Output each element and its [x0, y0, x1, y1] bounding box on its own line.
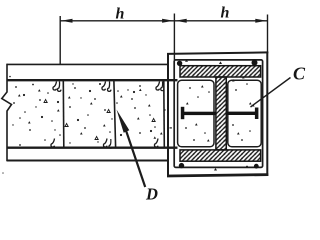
dimension line h right span [175, 20, 267, 22]
column outer outline right edge [266, 52, 268, 176]
steel H-section top flange [180, 66, 261, 77]
stirrup hook bottom 2 [103, 139, 107, 148]
stipples in right pocket [232, 76, 255, 141]
dimension extension line middle (x=174.4) [173, 14, 175, 61]
right bearing connector C end plate [255, 108, 259, 120]
beam bottom inner line [7, 146, 178, 148]
left bearing connector C bar [184, 112, 216, 115]
stirrup hook top 1 [53, 82, 57, 91]
svg-text:C: C [293, 64, 306, 84]
beam break line (left end zigzag) [2, 64, 12, 161]
column outer outline bottom edge [167, 175, 268, 176]
arrowhead right of right span [255, 19, 266, 23]
stirrup hook bottom 2b [109, 139, 112, 148]
leader line to C [251, 78, 291, 108]
rebar dot top-left [177, 61, 182, 66]
stirrup line 2 [114, 81, 116, 147]
stirrup hook top 3b [161, 82, 164, 91]
stirrup hook top 1b [58, 82, 61, 92]
stirrup hook top 2a [102, 82, 106, 91]
svg-text:h: h [116, 6, 125, 23]
arrowhead left of right span [175, 19, 187, 23]
stirrup hook top 3 [156, 82, 160, 91]
concrete stipple filled triangles in beam [18, 89, 172, 139]
left pocket tie (rounded rectangle) [178, 80, 214, 147]
right pocket tie (rounded rectangle) [228, 80, 261, 147]
column outer outline left edge [167, 53, 169, 177]
svg-text:h: h [221, 5, 230, 22]
steel H-section web [216, 77, 226, 150]
dimension line h left span [61, 20, 175, 22]
stirrup hook top 2b [108, 82, 111, 92]
steel H-section bottom flange [180, 150, 261, 161]
rebar dot bottom-left [179, 163, 184, 168]
concrete stipple hollow triangles in beam [44, 100, 155, 140]
stirrup line 3 [163, 81, 166, 147]
dimension extension line left (x=60) [59, 16, 61, 65]
dimension extension line right (x=267.5) [267, 15, 269, 54]
stipple marks near tie top [185, 59, 222, 170]
svg-text:D: D [145, 185, 158, 204]
leader line to D with arrowhead [126, 131, 145, 188]
rebar dot top-right [252, 60, 258, 66]
stirrup line 1 [62, 81, 65, 147]
rebar dot bottom-right [254, 164, 259, 169]
right bearing connector C bar [226, 112, 257, 115]
beam top line 2 [7, 79, 178, 81]
beam top line 1 [7, 63, 168, 65]
column tie rectangle [174, 60, 262, 167]
stipples in left pocket [185, 85, 210, 141]
column outer outline top edge [167, 52, 268, 54]
arrowhead right of left span [162, 19, 174, 23]
stirrup hook bottom 1 [51, 139, 55, 148]
beam bottom outer line [7, 160, 168, 162]
concrete stipple dots in beam [2, 76, 166, 174]
left bearing connector C end plate [181, 107, 185, 119]
stirrup hook bottom 3 [154, 139, 158, 148]
arrowhead left of left span [61, 19, 73, 23]
